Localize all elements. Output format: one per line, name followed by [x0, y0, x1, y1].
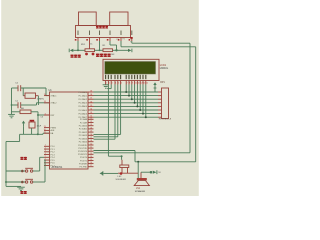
svg-text:21: 21 — [90, 118, 92, 120]
svg-text:38: 38 — [90, 94, 92, 96]
svg-text:14: 14 — [90, 156, 92, 158]
svg-text:P2.5/A13: P2.5/A13 — [79, 134, 88, 137]
svg-text:10: 10 — [90, 144, 92, 146]
svg-text:P0.2/AD2: P0.2/AD2 — [78, 98, 87, 101]
svg-text:22: 22 — [90, 121, 92, 123]
svg-text:RP1: RP1 — [160, 81, 165, 84]
svg-text:14: 14 — [146, 82, 148, 84]
svg-text:33: 33 — [90, 112, 92, 114]
svg-text:23: 23 — [90, 124, 92, 126]
svg-text:ALE: ALE — [51, 129, 55, 132]
svg-text:P2: P2 — [123, 39, 125, 41]
svg-text:2: 2 — [45, 147, 46, 149]
svg-text:24: 24 — [90, 127, 92, 129]
svg-text:13: 13 — [90, 153, 92, 155]
svg-text:36: 36 — [90, 101, 92, 103]
svg-text:11: 11 — [138, 82, 140, 84]
svg-text:18: 18 — [44, 101, 46, 103]
svg-text:6: 6 — [121, 82, 122, 84]
svg-text:16: 16 — [90, 162, 92, 164]
svg-text:P3.3/INT1: P3.3/INT1 — [78, 154, 88, 156]
svg-text:25: 25 — [90, 131, 92, 133]
svg-text:P3.6/WR: P3.6/WR — [79, 163, 88, 165]
svg-text:P0.5/AD5: P0.5/AD5 — [78, 109, 87, 112]
svg-text:35: 35 — [90, 105, 92, 107]
svg-text:34: 34 — [90, 109, 92, 111]
svg-text:P2.0/A8: P2.0/A8 — [80, 118, 88, 121]
svg-text:2: 2 — [109, 82, 110, 84]
svg-text:10: 10 — [135, 82, 137, 84]
svg-text:LCD1: LCD1 — [160, 64, 167, 67]
svg-text:12: 12 — [90, 150, 92, 152]
svg-text:P3.4/T0: P3.4/T0 — [80, 157, 88, 159]
svg-text:P0.6/AD6: P0.6/AD6 — [78, 112, 87, 115]
svg-text:P2.6/A14: P2.6/A14 — [79, 137, 88, 140]
svg-text:11: 11 — [90, 147, 92, 149]
svg-text:27: 27 — [90, 137, 92, 139]
svg-text:P2.3/A11: P2.3/A11 — [79, 128, 88, 131]
svg-text:P3.2/INT0: P3.2/INT0 — [78, 151, 88, 153]
svg-text:P0.4/AD4: P0.4/AD4 — [78, 105, 87, 108]
svg-text:13: 13 — [143, 82, 145, 84]
svg-text:P1: P1 — [117, 39, 119, 41]
svg-text:39: 39 — [90, 91, 92, 93]
svg-text:P3.1/TXD: P3.1/TXD — [78, 148, 87, 150]
svg-text:P2.4/A12: P2.4/A12 — [79, 131, 88, 134]
svg-text:P0.0/AD0: P0.0/AD0 — [78, 91, 87, 94]
svg-text:P3.5/T1: P3.5/T1 — [80, 160, 88, 162]
svg-text:RESPACK-8: RESPACK-8 — [159, 118, 172, 121]
svg-text:SPEAKER: SPEAKER — [135, 190, 146, 193]
svg-text:9: 9 — [45, 113, 46, 115]
svg-text:XTAL2: XTAL2 — [51, 102, 58, 105]
svg-text:LM016L: LM016L — [160, 68, 169, 70]
svg-text:LS1: LS1 — [136, 188, 141, 190]
svg-text:P0.1/AD1: P0.1/AD1 — [78, 94, 87, 97]
svg-text:1: 1 — [106, 82, 107, 84]
svg-text:26: 26 — [90, 134, 92, 136]
svg-text:29: 29 — [44, 126, 46, 128]
svg-text:3: 3 — [45, 150, 46, 152]
svg-text:28: 28 — [90, 140, 92, 142]
svg-text:9: 9 — [132, 82, 133, 84]
svg-text:19: 19 — [44, 94, 46, 96]
svg-text:7: 7 — [127, 82, 128, 84]
svg-text:37: 37 — [90, 98, 92, 100]
svg-text:PSEN: PSEN — [51, 127, 57, 129]
svg-text:SOUNDER: SOUNDER — [116, 179, 127, 181]
svg-text:31: 31 — [44, 132, 46, 134]
svg-text:30: 30 — [44, 129, 46, 131]
svg-text:P0.3/AD3: P0.3/AD3 — [78, 102, 87, 105]
svg-text:12: 12 — [141, 82, 143, 84]
svg-text:P3.0/RXD: P3.0/RXD — [78, 145, 87, 147]
svg-text:4: 4 — [115, 82, 116, 84]
svg-text:5: 5 — [45, 156, 46, 158]
svg-text:10uF: 10uF — [37, 125, 42, 127]
svg-text:4: 4 — [45, 153, 46, 155]
svg-text:P2.2/A10: P2.2/A10 — [79, 125, 88, 128]
svg-text:1k: 1k — [90, 44, 92, 46]
svg-text:17: 17 — [90, 165, 92, 167]
svg-text:15: 15 — [90, 159, 92, 161]
svg-text:P2.7/A15: P2.7/A15 — [79, 141, 88, 144]
svg-text:3: 3 — [112, 82, 113, 84]
svg-text:P3.7/RD: P3.7/RD — [79, 167, 87, 169]
svg-text:P2.1/A9: P2.1/A9 — [80, 121, 88, 124]
svg-text:XTAL1: XTAL1 — [51, 94, 58, 97]
svg-text:8: 8 — [129, 82, 130, 84]
svg-text:5: 5 — [118, 82, 119, 84]
svg-text:1: 1 — [45, 145, 46, 147]
